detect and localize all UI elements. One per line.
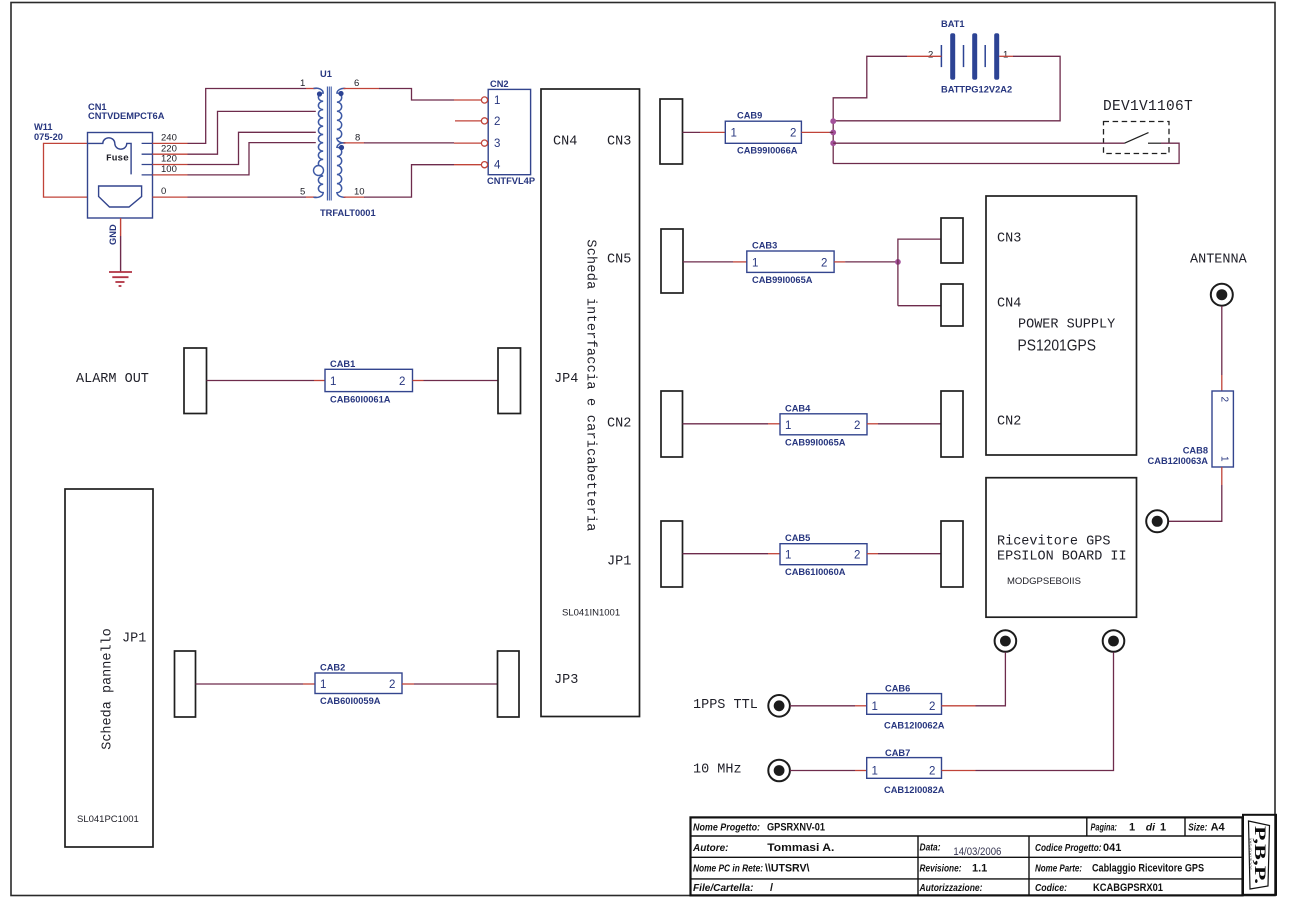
junction dot B — [830, 130, 836, 136]
svg-text:CN2: CN2 — [490, 79, 509, 89]
svg-text:2: 2 — [790, 128, 796, 140]
svg-text:W11: W11 — [34, 122, 53, 132]
svg-text:2: 2 — [494, 116, 500, 128]
svg-text:1: 1 — [1219, 456, 1230, 462]
red stub CAB5 pin2 — [867, 553, 878, 555]
svg-text:SL041IN1001: SL041IN1001 — [562, 608, 620, 619]
wire junction to switch — [833, 142, 1124, 144]
board: Scheda pannello — [65, 489, 153, 847]
svg-text:2: 2 — [854, 550, 860, 562]
svg-text:0: 0 — [161, 186, 166, 197]
red stub CAB5 pin1 — [768, 553, 780, 555]
junction dot A — [830, 118, 836, 124]
switch blade — [1125, 133, 1149, 144]
svg-text:CAB60I0059A: CAB60I0059A — [320, 696, 381, 706]
svg-text:2: 2 — [854, 420, 860, 432]
svg-text:GPSRXNV-01: GPSRXNV-01 — [767, 822, 825, 834]
svg-text:CN4: CN4 — [553, 135, 577, 150]
switch DEV1V1106T dashed box — [1104, 122, 1170, 154]
CN1 red pin stubs — [153, 143, 188, 197]
wire battery pin2 to junction — [833, 56, 907, 121]
coax connector (GPS antenna in) — [1146, 510, 1168, 532]
board: Scheda interfaccia e caricabetteria — [541, 89, 640, 717]
svg-text:14/03/2006: 14/03/2006 — [953, 846, 1001, 858]
svg-text:DEV1V1106T: DEV1V1106T — [1103, 99, 1193, 115]
connector CN2 body — [488, 89, 530, 174]
red stub CAB7 pin2 — [942, 770, 976, 772]
red stub CAB6 pin1 — [855, 705, 867, 707]
svg-text:Fuse: Fuse — [106, 153, 129, 164]
red stub CAB8 pin1 — [1221, 467, 1223, 485]
svg-text:10 MHz: 10 MHz — [693, 763, 742, 778]
svg-text:2: 2 — [821, 257, 827, 269]
red stub CAB6 pin2 — [942, 705, 976, 707]
wire CAB5 stub to CAB5 — [683, 553, 769, 555]
connector stub (PS CN2) — [941, 391, 963, 457]
connector stub (PS CN3) — [941, 218, 963, 263]
wire 220 tap to transformer — [188, 111, 316, 154]
svg-text:1: 1 — [785, 420, 791, 432]
svg-text:2: 2 — [1219, 397, 1230, 403]
red stub CAB2 pin2 — [402, 683, 414, 685]
svg-text:1: 1 — [300, 78, 305, 89]
red stub transformer pin 6 — [344, 88, 380, 90]
svg-text:JP3: JP3 — [554, 673, 578, 688]
svg-text:2: 2 — [399, 376, 405, 388]
red stub CAB3 pin1 — [733, 261, 747, 263]
svg-text:CAB12I0063A: CAB12I0063A — [1148, 456, 1209, 466]
svg-text:8: 8 — [355, 133, 360, 144]
connector stub (PS CN4) — [941, 284, 963, 326]
svg-text:Cablaggio Ricevitore GPS: Cablaggio Ricevitore GPS — [1092, 863, 1204, 875]
cable CAB6 body — [867, 694, 942, 715]
connector stub (ALARM OUT left) — [184, 348, 207, 414]
svg-text:CN5: CN5 — [607, 253, 631, 268]
svg-text:JP4: JP4 — [554, 372, 578, 387]
svg-text:PS1201GPS: PS1201GPS — [1018, 338, 1097, 355]
wire CAB2 to JP3 stub — [414, 683, 498, 685]
svg-text:Pagina:: Pagina: — [1091, 822, 1118, 834]
svg-text:CN3: CN3 — [997, 232, 1021, 247]
red stub CN2 pin4 — [454, 164, 481, 166]
svg-text:Autore:: Autore: — [692, 842, 728, 854]
wire CAB1 to JP4 stub — [424, 380, 499, 382]
svg-text:CN2: CN2 — [607, 417, 631, 432]
svg-text:POWER SUPPLY: POWER SUPPLY — [1018, 318, 1115, 333]
svg-text:1: 1 — [785, 550, 791, 562]
connector stub (CAB9 left) — [660, 99, 683, 164]
wire W11 to CN1 (red loop) — [44, 143, 88, 197]
svg-text:1: 1 — [320, 679, 326, 691]
svg-text:BAT1: BAT1 — [941, 19, 965, 29]
wire CAB9 stub to CAB9 — [683, 131, 701, 133]
svg-text:SL041PC1001: SL041PC1001 — [77, 814, 139, 825]
svg-text:075-20: 075-20 — [34, 132, 63, 142]
red stub CAB9 pin1 — [700, 131, 725, 133]
red stub battery pin1 — [999, 55, 1013, 57]
wire CAB8 to GPS antenna coax — [1169, 485, 1222, 521]
connector stub (GPS board) — [941, 521, 963, 587]
transformer polarity dot (pin6) — [338, 91, 343, 96]
svg-text:Ricevitore GPS: Ricevitore GPS — [997, 535, 1110, 550]
connector stub (JP4 side) — [498, 348, 521, 414]
svg-text:1: 1 — [731, 128, 737, 140]
svg-text:File/Cartella:: File/Cartella: — [693, 882, 754, 894]
svg-text:2: 2 — [929, 701, 935, 713]
wire transformer pin10 to CN2 pin4 — [364, 165, 454, 197]
wire 1PPS to CAB6 — [790, 705, 855, 707]
wire ALARM stub to CAB1 — [207, 380, 315, 382]
transformer polarity dot (pin1) — [317, 91, 322, 96]
svg-text:CAB61I0060A: CAB61I0060A — [785, 567, 846, 577]
svg-text:CNTFVL4P: CNTFVL4P — [487, 176, 535, 186]
svg-text:10: 10 — [354, 187, 365, 198]
CN1 tap stubs (blue) — [142, 143, 153, 175]
red stub transformer pin 1 — [306, 88, 317, 90]
wire CAB4 stub to CAB4 — [683, 423, 769, 425]
connector stub (CAB2 left) — [175, 651, 196, 717]
wire CAB5 to GPS stub — [878, 553, 941, 555]
red stub CN2 pin1 — [454, 99, 481, 101]
svg-text:U1: U1 — [320, 69, 332, 79]
wire switch to bottom return — [833, 143, 1179, 163]
svg-text:\\UTSRV\: \\UTSRV\ — [765, 863, 810, 875]
cable CAB7 body — [867, 758, 942, 779]
svg-text:KCABGPSRX01: KCABGPSRX01 — [1093, 882, 1163, 894]
battery BAT1 plates — [941, 33, 999, 80]
CN2 pin circle 4 — [481, 162, 487, 168]
svg-text:CN4: CN4 — [997, 297, 1021, 312]
node W11 075-20 label — [34, 122, 63, 142]
red stub CAB2 pin1 — [303, 683, 315, 685]
wire split to CN4 stub — [898, 305, 941, 307]
wire 120 tap to transformer — [188, 132, 316, 164]
red stub CAB1 pin2 — [413, 380, 424, 382]
red stub CAB1 pin1 — [314, 380, 325, 382]
red stub CAB4 pin1 — [768, 423, 780, 425]
wire transformer pin6 to CN2 pin1 — [379, 89, 454, 101]
svg-text:1: 1 — [1129, 822, 1135, 834]
red stub battery pin2 — [907, 55, 941, 57]
wire CAB6 to coax — [976, 652, 1006, 706]
red stub CAB4 pin2 — [867, 423, 878, 425]
svg-text:CAB99I0065A: CAB99I0065A — [785, 437, 846, 447]
cable CAB1 body — [325, 369, 413, 391]
wire battery pin1 loop to junction — [833, 56, 1060, 121]
connector stub (CAB5 left) — [661, 521, 683, 587]
svg-text:Data:: Data: — [920, 841, 941, 853]
svg-text:100: 100 — [161, 164, 177, 175]
svg-text:CAB99I0066A: CAB99I0066A — [737, 146, 798, 156]
red stub CAB7 pin1 — [855, 770, 867, 772]
svg-text:JP1: JP1 — [122, 632, 146, 647]
svg-text:240: 240 — [161, 133, 177, 144]
wire 0 tap to transformer pin 5 — [188, 196, 307, 198]
svg-text:SOCIETA GPSRX: SOCIETA GPSRX — [1248, 838, 1253, 870]
svg-text:5: 5 — [300, 187, 305, 198]
connector CN1 label — [88, 102, 165, 121]
svg-text:GND: GND — [108, 224, 118, 245]
svg-text:CN2: CN2 — [997, 415, 1021, 430]
connector CN1 body — [88, 133, 153, 219]
svg-text:/: / — [770, 882, 773, 894]
title value 1 di 1 — [1129, 822, 1166, 834]
wire CAB3 stub to CAB3 — [683, 261, 733, 263]
svg-text:CAB3: CAB3 — [752, 241, 777, 251]
svg-text:Nome Progetto:: Nome Progetto: — [693, 822, 760, 834]
svg-text:1.1: 1.1 — [972, 863, 987, 875]
cable CAB4 body — [780, 414, 867, 435]
svg-text:di: di — [1146, 822, 1156, 834]
svg-text:P,B,P.: P,B,P. — [1251, 826, 1268, 884]
ground symbol — [109, 272, 132, 286]
svg-text:CAB6: CAB6 — [885, 684, 910, 694]
GND wire — [120, 218, 122, 236]
red stub transformer pin 10 — [344, 196, 365, 198]
svg-text:CAB2: CAB2 — [320, 663, 345, 673]
svg-text:CAB60I0061A: CAB60I0061A — [330, 395, 391, 405]
svg-text:CAB1: CAB1 — [330, 359, 355, 369]
coax connector (10 MHz) — [768, 760, 790, 782]
svg-text:6: 6 — [354, 78, 359, 89]
red stub CAB9 pin2 — [801, 131, 829, 133]
svg-text:CAB12I0082A: CAB12I0082A — [884, 785, 945, 795]
svg-text:EPSILON BOARD II: EPSILON BOARD II — [997, 550, 1127, 565]
svg-text:Autorizzazione:: Autorizzazione: — [919, 882, 983, 894]
switch contact — [1148, 142, 1161, 144]
wire antenna to CAB8 — [1221, 306, 1223, 375]
svg-text:CNTVDEMPCT6A: CNTVDEMPCT6A — [88, 111, 165, 121]
svg-text:CAB5: CAB5 — [785, 533, 810, 543]
red stub transformer pin 8 — [344, 142, 365, 144]
svg-text:1: 1 — [1160, 822, 1166, 834]
red stub transformer pin 5 — [306, 196, 317, 198]
svg-text:1: 1 — [494, 95, 500, 107]
svg-text:1: 1 — [872, 766, 878, 778]
svg-text:1: 1 — [1003, 50, 1008, 61]
svg-text:TRFALT0001: TRFALT0001 — [320, 208, 376, 218]
svg-text:1PPS TTL: 1PPS TTL — [693, 698, 758, 713]
red stub CN2 pin3 — [454, 142, 481, 144]
junction dot D — [895, 259, 901, 265]
svg-text:CAB9: CAB9 — [737, 111, 762, 121]
svg-text:CAB99I0065A: CAB99I0065A — [752, 275, 813, 285]
wire CAB2 stub to CAB2 — [196, 683, 304, 685]
wire CAB7 to coax — [976, 652, 1114, 770]
svg-text:120: 120 — [161, 154, 177, 165]
svg-text:MODGPSEBOIIS: MODGPSEBOIIS — [1007, 576, 1081, 587]
svg-text:A4: A4 — [1211, 822, 1226, 834]
wire CAB4 to PS CN2 stub — [878, 423, 941, 425]
svg-text:CAB12I0062A: CAB12I0062A — [884, 720, 945, 730]
coax connector (10MHz out) — [1103, 630, 1125, 652]
junction dot C — [830, 140, 836, 146]
svg-text:Size:: Size: — [1188, 822, 1207, 834]
svg-text:CAB4: CAB4 — [785, 403, 811, 413]
CN1 inlet opening — [99, 186, 142, 207]
svg-text:CAB8: CAB8 — [1183, 446, 1208, 456]
svg-text:CN3: CN3 — [607, 135, 631, 150]
cable CAB8 body (vertical) — [1212, 391, 1233, 467]
svg-text:ALARM OUT: ALARM OUT — [76, 372, 149, 387]
cable CAB2 body — [315, 673, 402, 694]
transformer U1 secondary winding (lower) — [337, 143, 346, 197]
wire transformer pin8 to CN2 pin3 — [364, 142, 454, 144]
svg-text:Scheda interfaccia e caricabet: Scheda interfaccia e caricabetteria — [583, 239, 598, 531]
svg-text:JP1: JP1 — [607, 555, 631, 570]
svg-text:2: 2 — [929, 766, 935, 778]
transformer U1 primary winding — [314, 88, 324, 197]
svg-text:Nome Parte:: Nome Parte: — [1035, 863, 1082, 875]
fuse (inside CN1) — [88, 138, 132, 175]
cable CAB3 body — [747, 251, 834, 272]
svg-text:Codice:: Codice: — [1035, 882, 1067, 894]
title block frame — [691, 817, 1243, 895]
svg-text:3: 3 — [494, 138, 500, 150]
cable CAB9 body — [725, 121, 801, 143]
module: Ricevitore GPS EPSILON BOARD II — [986, 478, 1137, 618]
svg-text:Scheda pannello: Scheda pannello — [101, 628, 116, 750]
coax connector (ANTENNA) — [1211, 284, 1233, 306]
wire 10MHz to CAB7 — [790, 770, 855, 772]
svg-text:Nome PC in Rete:: Nome PC in Rete: — [693, 863, 763, 875]
svg-text:Revisione:: Revisione: — [920, 863, 962, 875]
transformer loop circle — [314, 166, 324, 176]
svg-text:041: 041 — [1103, 842, 1121, 854]
svg-text:4: 4 — [494, 160, 501, 172]
coax connector (1PPS out) — [995, 630, 1017, 652]
module: POWER SUPPLY PS1201GPS — [986, 196, 1137, 455]
svg-text:2: 2 — [928, 50, 933, 61]
red stub CAB8 pin2 — [1221, 375, 1223, 391]
transformer core — [327, 87, 331, 201]
svg-text:BATTPG12V2A2: BATTPG12V2A2 — [941, 85, 1012, 95]
red stub CAB3 pin2 — [834, 261, 845, 263]
svg-text:Tommasi A.: Tommasi A. — [767, 842, 834, 854]
transformer polarity dot (pin8) — [339, 145, 344, 150]
wire 100 tap to transformer — [188, 143, 316, 175]
cable CAB5 body — [780, 544, 867, 565]
connector stub (CAB3 left) — [661, 229, 683, 293]
red stub CN2 pin2 (floating) — [455, 120, 481, 122]
svg-text:1: 1 — [330, 376, 336, 388]
svg-text:CAB7: CAB7 — [885, 748, 910, 758]
CN2 pin circle 3 — [481, 140, 487, 146]
CN2 pin circle 1 — [481, 97, 487, 103]
svg-text:ANTENNA: ANTENNA — [1190, 253, 1248, 268]
svg-text:2: 2 — [389, 679, 395, 691]
transformer U1 secondary winding (upper) — [337, 88, 346, 143]
connector stub (JP3 side) — [498, 651, 520, 717]
wire 240 tap to transformer pin 1 — [188, 89, 307, 144]
coax connector (1PPS TTL) — [768, 695, 790, 717]
CN2 pin circle 2 — [481, 118, 487, 124]
company logo box — [1243, 815, 1276, 895]
wire split to CN3 stub — [898, 239, 941, 306]
wire CAB3 to split junction — [845, 261, 898, 263]
company logo mark — [1248, 821, 1270, 889]
svg-text:Codice Progetto:: Codice Progetto: — [1035, 842, 1102, 854]
wire junction vertical — [832, 121, 834, 164]
connector stub (CAB4 left) — [661, 391, 683, 457]
svg-text:1: 1 — [752, 257, 758, 269]
wire CAB9 pin2 to junction — [829, 131, 833, 133]
svg-text:1: 1 — [872, 701, 878, 713]
